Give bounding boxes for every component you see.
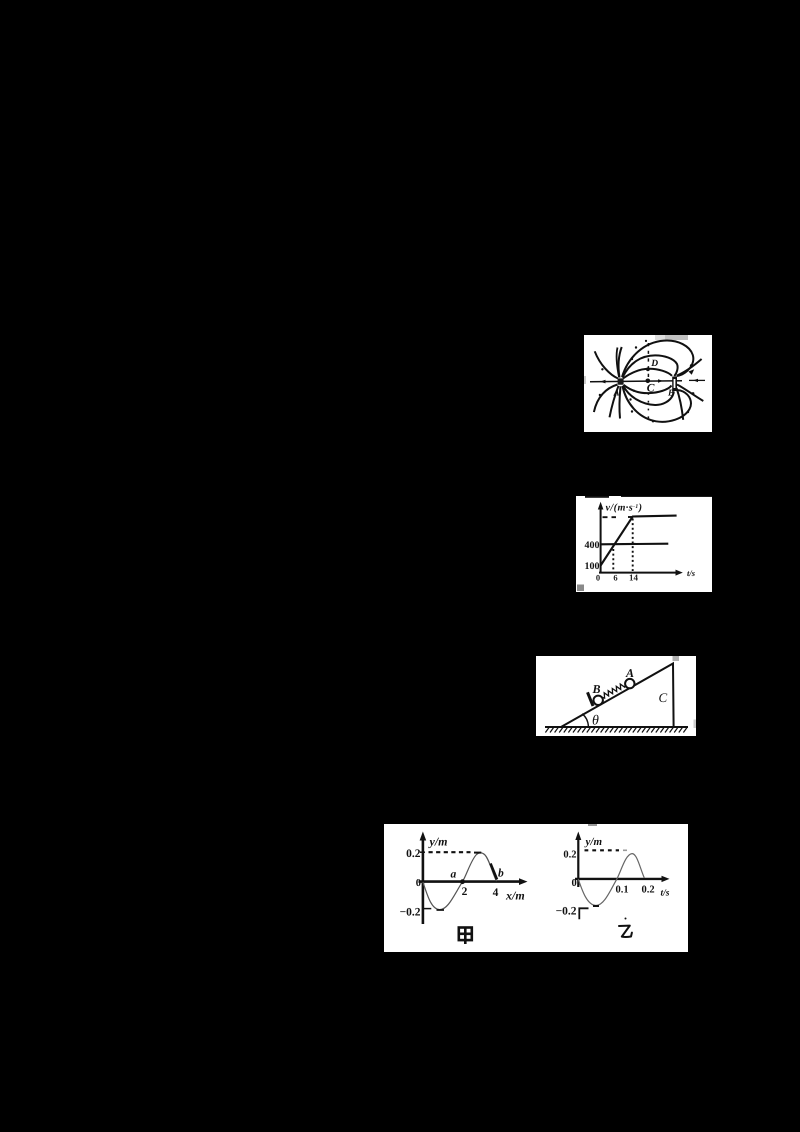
svg-text:B: B [592, 682, 601, 696]
svg-text:100: 100 [585, 561, 600, 572]
svg-text:x/m: x/m [505, 889, 525, 903]
svg-text:A: A [613, 388, 620, 398]
svg-text:6: 6 [613, 573, 617, 583]
svg-text:A: A [625, 666, 634, 680]
svg-text:v/(m·s-1): v/(m·s-1) [606, 503, 643, 514]
svg-text:−0.2: −0.2 [400, 907, 421, 919]
svg-text:0.2: 0.2 [406, 848, 421, 860]
svg-text:0: 0 [572, 878, 577, 889]
svg-text:0: 0 [596, 573, 600, 583]
svg-text:B: B [667, 388, 674, 398]
svg-text:a: a [451, 869, 457, 881]
svg-text:400: 400 [585, 540, 600, 551]
svg-text:t/s: t/s [687, 568, 696, 578]
svg-text:D: D [650, 359, 658, 369]
svg-text:0.2: 0.2 [641, 885, 654, 896]
svg-text:4: 4 [493, 887, 499, 899]
svg-text:14: 14 [629, 573, 639, 583]
svg-text:0.1: 0.1 [615, 885, 628, 896]
svg-text:θ: θ [592, 714, 599, 729]
svg-text:0: 0 [416, 878, 421, 889]
svg-text:C: C [659, 690, 668, 705]
svg-text:−0.2: −0.2 [556, 906, 577, 918]
svg-text:2: 2 [462, 886, 468, 898]
svg-text:y/m: y/m [428, 835, 448, 849]
svg-text:C: C [647, 383, 655, 395]
svg-text:b: b [498, 868, 504, 880]
svg-text:t/s: t/s [661, 889, 670, 899]
svg-text:0.2: 0.2 [563, 850, 576, 861]
svg-text:y/m: y/m [584, 836, 603, 848]
